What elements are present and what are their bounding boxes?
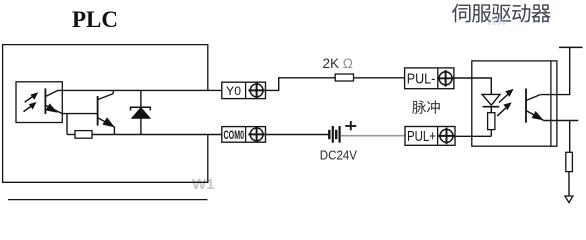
resistor R4 [566,152,573,171]
terminal Y0 [222,82,266,98]
wire: Y0 jog up to R2 [266,78,336,91]
label: text 伺服驱动器 (servo drive) [452,4,551,23]
transistor Q2 [98,90,115,134]
LED D2 [482,94,500,112]
wire: branch down to R1 [66,114,68,135]
zener diode D1 [131,90,151,134]
terminal PUL- [405,68,454,89]
bottom rule line [8,199,208,201]
light arrow 2 (into U1) [24,102,37,112]
svg-text:W1: W1 [192,176,215,193]
top rail T [559,46,583,48]
Q1 emitter arrowhead [46,103,58,112]
svg-text:ww: ww [487,12,508,28]
svg-text:PUL+: PUL+ [407,129,436,145]
resistor R1 [75,131,92,139]
wire: R3 to PUL+ [490,130,492,137]
wire: PUL- to LED anode [454,78,491,94]
Q2 emitter arrowhead [102,117,114,127]
plus sign [345,121,356,130]
LED light arrow 1 [499,89,514,103]
wire: Q1 collector to Y0 (top rail) [58,89,222,91]
wire: R4 down [568,172,570,196]
terminal COM0 [222,126,266,142]
U2 inner right edge line [550,61,552,146]
battery B1 [329,126,339,143]
svg-text:DC24V: DC24V [320,148,357,163]
LED light arrow 2 [497,102,512,116]
wire: Q3 emitter out [544,120,579,122]
phototransistor Q1 (in U1) [45,88,62,114]
resistor R3 [488,113,495,130]
svg-text:PUL-: PUL- [407,72,436,88]
servo optocoupler U2 box [472,61,557,146]
svg-text:2K Ω: 2K Ω [323,56,353,71]
label: text 脉冲 (pulse) [412,100,440,113]
wire: Q3 collector out [540,47,569,94]
wire (gray): battery to PUL+ [341,135,405,137]
wire: Q1 emitter to Q2 base [62,113,97,115]
wire: COM0 to battery [266,134,329,136]
svg-text:PLC: PLC [72,7,118,32]
open arrowhead down [565,196,573,203]
wire: bottom rail R1 to COM0 [92,134,222,136]
wire: R2 to PUL- [354,77,405,79]
Q3 emitter arrowhead [532,111,544,120]
PLC enclosure box [3,45,208,183]
resistor R2 2K [335,74,353,81]
phototransistor Q3 [526,89,544,123]
optocoupler U1 box [16,82,62,123]
svg-text:Y0: Y0 [226,84,241,98]
light arrow 1 (into U1) [25,92,39,102]
wire: down to R4 [569,121,571,153]
terminal PUL+ [405,127,455,146]
svg-text:COM0: COM0 [224,128,245,142]
